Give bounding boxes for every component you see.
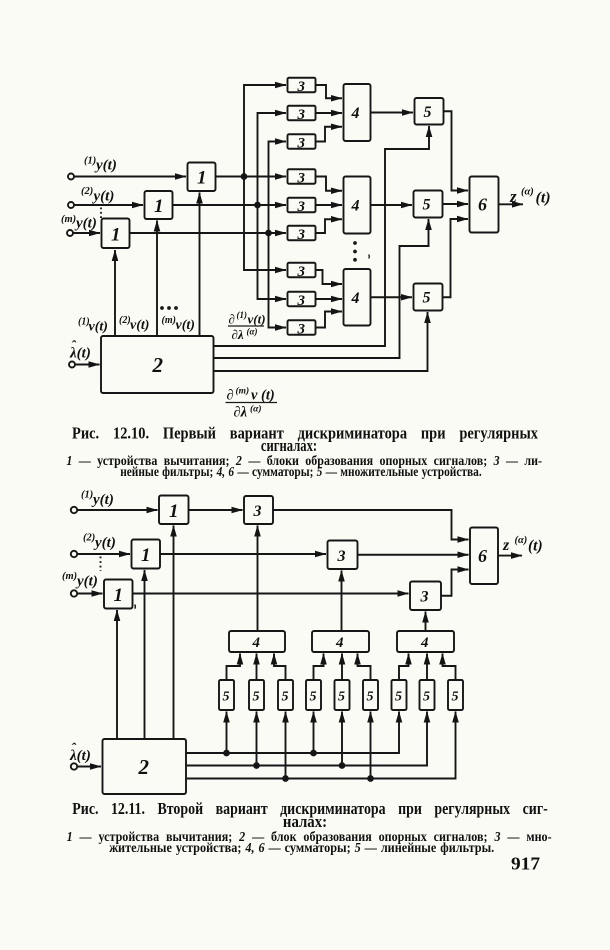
wire filter 5b to summer 4-1 [256,654,258,680]
wire block 1a to multiplier 3a [189,509,243,511]
junction L2-5b [254,763,259,768]
filter 5d [306,680,321,710]
wire b8 to summer 4-3 [316,298,343,300]
junction L1-5a [224,751,229,756]
svg-text:3: 3 [253,503,262,520]
junction on v3 [266,231,271,236]
wire filter 5d to summer 4-2 [314,654,324,680]
svg-text:(m): (m) [61,214,76,225]
filter b4 [288,169,316,184]
filter b9 [288,320,316,335]
junction L3-5f [368,776,373,781]
wire bus v3 up to filter b3 [269,142,287,234]
svg-text:(α): (α) [250,404,262,415]
svg-text:3: 3 [297,264,306,280]
wire filter 5c to summer 4-1 [274,654,286,680]
svg-text:5: 5 [423,197,431,214]
wire summer 4-1 up to multiplier 3a [257,526,259,632]
wire ym input to block 1c [73,232,100,234]
filter b8 [288,292,316,307]
summer 4-1 [344,84,371,141]
wire filter 5g to summer 4-3 [399,654,409,680]
wire b1 to summer 4-1 [316,85,343,98]
wire bus v1 down to filter b7 [244,177,286,271]
svg-text:3: 3 [420,589,429,606]
filter 5f [363,680,378,710]
svg-text:(m): (m) [62,571,77,582]
wire multiplier 3c to summer 6 [441,570,469,596]
svg-text:4: 4 [252,635,261,651]
wire derivative d1 from block 2 to multiplier 5-1 [214,126,430,346]
svg-text:∂: ∂ [227,388,234,404]
svg-text:3: 3 [297,107,306,123]
stray comma mark [368,255,371,259]
svg-text:v(t): v(t) [248,312,266,327]
block 2 (reference signal generator) [101,336,214,393]
svg-text:4: 4 [351,198,360,215]
svg-text:917: 917 [511,854,540,874]
wire bus v1 up to filter b1 [244,85,286,177]
wire v1(t) from block 2 up to block 1c [114,250,116,336]
wire multiplier 3b to summer 6 [358,554,469,556]
wire L2 branch up to filter 5e [341,712,343,766]
filter b7 [288,263,316,278]
svg-text:(t): (t) [528,538,543,555]
svg-text:5: 5 [310,690,317,705]
svg-text:4: 4 [335,635,344,651]
wire block 1b output to filter b5 [173,204,287,206]
filter b6 [288,226,316,241]
wire summer 4-3 to multiplier 5-3 [371,296,413,298]
svg-text:1: 1 [141,545,151,566]
wire summer 4-2 up to multiplier 3b [341,571,343,632]
svg-text:6: 6 [478,195,487,215]
dotted ellipsis between y2 and ym terminals [100,208,102,219]
junction L2-5e [340,763,345,768]
svg-text:v(t): v(t) [130,318,149,333]
vertical ellipsis between summers [353,241,357,262]
svg-text:(t): (t) [536,190,551,207]
wire derivative line L1 to filter 5g [186,712,399,754]
wire summer 4-3 up to multiplier 3c [425,612,427,632]
wire L3 branch up to filter 5f [370,712,372,779]
svg-text:(1): (1) [84,156,96,167]
svg-text:1: 1 [111,225,121,246]
input terminal y1 (fig 12.11) [71,507,77,513]
svg-text:(m): (m) [162,315,176,326]
wire vm(t) from block 2 up to block 1a [199,193,201,337]
multiplier 3b [328,541,358,570]
wire lambda input to block 2 [77,766,101,768]
svg-text:z: z [502,537,510,554]
filter 5a [219,680,234,710]
wire bus v2 down to filter b8 [258,205,287,299]
block 1c (subtractor) [104,580,133,609]
svg-text:5: 5 [282,690,289,705]
svg-text:5: 5 [338,690,345,705]
input terminal ym (fig 12.11) [71,590,77,596]
wire L2 branch up to filter 5b [256,712,258,766]
svg-text:3: 3 [297,135,306,151]
svg-text:5: 5 [424,104,432,121]
svg-text:v (t): v (t) [251,388,275,404]
svg-text:y(t): y(t) [94,158,117,174]
junction L3-5c [283,776,288,781]
wire b5 to summer 4-2 [316,204,343,206]
wire multiplier 5-2 to summer 6 [443,203,469,205]
svg-text:(2): (2) [83,533,95,544]
svg-text:y(t): y(t) [91,492,114,508]
block 1b (subtractor) [145,191,173,219]
svg-text:1: 1 [114,585,124,606]
input terminal lambda (fig 12.10) [69,362,75,368]
summer 4-1 (fig 12.11) [229,631,285,652]
wire b3 to summer 4-1 [316,127,343,142]
wire derivative dm from block 2 to multiplier 5-3 [214,312,428,371]
wire bus v2 up to filter b2 [258,113,287,205]
svg-text:1: 1 [169,501,179,522]
svg-text:3: 3 [297,293,306,309]
wire y2 input to block 1b [74,204,143,206]
svg-text:(2): (2) [81,186,93,197]
wire ym input to block 1c [77,593,102,595]
svg-text:5: 5 [423,290,431,307]
wire block 2 up to block 1b [144,570,146,739]
wire multiplier 5-1 to summer 6 [444,111,469,190]
svg-text:y(t): y(t) [74,216,97,232]
wire summer 4-1 to multiplier 5-1 [371,112,414,114]
svg-text:y(t): y(t) [92,189,115,205]
svg-text:(2): (2) [119,315,131,326]
svg-text:3: 3 [297,227,306,243]
svg-text:5: 5 [253,690,260,705]
block 1c (subtractor) [102,219,130,249]
wire derivative d2 from block 2 to multiplier 5-2 [214,219,429,358]
svg-text:5: 5 [395,690,402,705]
junction on v1 [242,174,247,179]
svg-text:∂λ: ∂λ [232,327,244,342]
wire block 2 up to block 1a [173,526,175,740]
input terminal lambda (fig 12.11) [71,763,77,769]
svg-text:4: 4 [351,105,360,122]
input terminal y2 (fig 12.10) [68,202,74,208]
stray comma mark near 1c [134,605,137,609]
multiplier 3c [410,582,441,611]
wire summer 4-2 to multiplier 5-2 [371,204,413,206]
filter 5i [448,680,463,710]
svg-text:y(t): y(t) [75,574,98,590]
svg-text:6: 6 [478,546,487,566]
svg-text:3: 3 [337,548,346,565]
wire multiplier 5-3 to summer 6 [443,219,469,297]
svg-text:4: 4 [420,635,429,651]
wire L1 branch up to filter 5d [313,712,315,754]
svg-text:∂: ∂ [229,312,235,327]
filter 5e [335,680,350,710]
summer 4-3 (fig 12.11) [397,631,454,652]
filter b5 [288,198,316,213]
wire y1 input to block 1a [74,176,186,178]
wire b2 to summer 4-1 [316,112,343,114]
filter 5h [420,680,435,710]
summer 4-2 [344,177,371,234]
svg-text:5: 5 [423,690,430,705]
svg-text:1: 1 [197,168,207,189]
svg-text:(α): (α) [247,327,258,337]
svg-text:нейные фильтры; 4, 6 — суммато: нейные фильтры; 4, 6 — сумматоры; 5 — мн… [120,465,482,480]
svg-text:3: 3 [297,199,306,215]
summer 4-2 (fig 12.11) [312,631,369,652]
svg-text:∂λ: ∂λ [234,405,248,421]
filter 5c [278,680,293,710]
wire y2 input to block 1b [77,553,130,555]
wire bus v3 down to filter b9 [269,233,287,328]
svg-text:3: 3 [297,321,306,337]
wire derivative line L3 to filter 5i [186,712,456,779]
block 1a (subtractor) [188,163,216,192]
wire block 1c to multiplier 3c [133,593,409,595]
svg-text:(α): (α) [521,187,534,198]
multiplier 5-1 [415,98,444,125]
wire filter 5a to summer 4-1 [227,654,241,680]
wire b4 to summer 4-2 [316,177,343,191]
svg-text:5: 5 [223,690,230,705]
svg-text:4: 4 [351,290,360,307]
svg-text:5: 5 [452,690,459,705]
input terminal ym (fig 12.10) [67,230,73,236]
filter b2 [288,106,316,121]
svg-text:3: 3 [297,79,306,95]
summer 4-3 [344,269,371,326]
wire y1 input to block 1a [77,509,157,511]
block 2 (fig 12.11) [103,739,187,794]
horizontal ellipsis between v labels [160,306,178,310]
filter 5b [249,680,264,710]
filter b3 [288,134,316,149]
junction L1-5d [311,751,316,756]
filter b1 [288,78,316,93]
multiplier 5-3 [414,284,443,311]
wire multiplier 3a to summer 6 [273,510,469,540]
svg-text:5: 5 [367,690,374,705]
svg-text:3: 3 [297,170,306,186]
wire derivative line L2 to filter 5h [186,712,427,766]
svg-text:сигналах:: сигналах: [261,436,317,455]
filter 5g [392,680,407,710]
svg-text:(α): (α) [515,535,528,546]
wire b9 to summer 4-3 [316,312,343,328]
wire block 1b to multiplier 3b [160,553,326,555]
wire lambda input to block 2 [75,364,100,366]
multiplier 5-2 [414,191,443,218]
wire output z (fig 12.11) [498,555,522,557]
wire filter 5h to summer 4-3 [426,654,428,680]
svg-text:1: 1 [154,196,164,217]
block 1b (subtractor) [132,540,161,569]
wire filter 5f to summer 4-2 [358,654,371,680]
wire output z [499,203,524,205]
svg-text:(m): (m) [236,386,250,397]
svg-text:v(t): v(t) [89,320,108,335]
input terminal y2 (fig 12.11) [71,551,77,557]
svg-text:z: z [509,187,517,206]
wire v2(t) from block 2 up to block 1b [156,221,158,337]
wire block 1a output to filter b4 [216,176,287,178]
dotted ellipsis between y2 and ym terminals [100,557,102,572]
wire L3 branch up to filter 5c [285,712,287,779]
svg-text:2: 2 [138,755,150,779]
summer 6 [470,177,499,233]
svg-text:y(t): y(t) [93,535,116,551]
svg-text:v(t): v(t) [176,318,195,333]
wire filter 5i to summer 4-3 [443,654,456,680]
wire b7 to summer 4-3 [316,270,343,284]
wire L1 branch up to filter 5a [226,712,228,754]
svg-text:(1): (1) [81,490,93,501]
junction on v2 [255,203,260,208]
wire block 2 up to block 1c [116,610,118,739]
multiplier 3a [244,496,273,524]
svg-text:жительные устройства; 4, 6 — с: жительные устройства; 4, 6 — сумматоры; … [109,841,494,856]
svg-text:налах:: налах: [283,812,327,831]
wire b6 to summer 4-2 [316,219,343,233]
input terminal y1 (fig 12.10) [68,174,74,180]
summer 6 (fig 12.11) [470,528,498,585]
svg-text:2: 2 [152,353,164,377]
block 1a (subtractor) [159,496,189,525]
svg-text:(1): (1) [237,310,248,320]
wire block 1c output to filter b6 [130,232,287,234]
wire filter 5e to summer 4-2 [341,654,343,680]
